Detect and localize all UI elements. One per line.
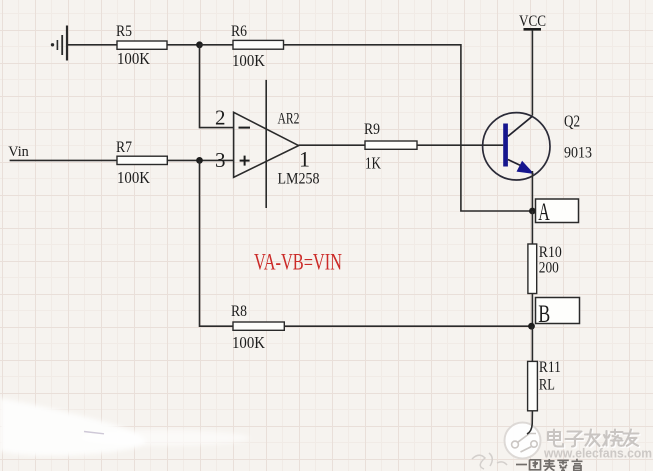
node junction (pin2 net, top) — [196, 41, 203, 48]
wire junction to R6 — [200, 44, 234, 46]
glyph ling — [557, 460, 569, 470]
node junction (pin3 net) — [196, 157, 203, 164]
svg-text:VCC: VCC — [519, 13, 546, 30]
svg-text:9013: 9013 — [564, 145, 592, 162]
svg-text:VA-VB=VIN: VA-VB=VIN — [254, 250, 342, 275]
base bar — [503, 124, 508, 167]
emitter lead — [508, 160, 529, 170]
resistor R10 — [528, 244, 562, 294]
collector lead — [508, 116, 533, 136]
svg-text:A: A — [538, 199, 550, 226]
wire R10 to node B — [531, 294, 533, 327]
wire junction down to pin 2 — [200, 45, 234, 128]
glyph yi (dash) — [516, 464, 527, 466]
wire R8 to node B — [284, 325, 531, 327]
wire op-amp output to R9 — [299, 144, 365, 146]
resistor R8 — [231, 303, 284, 352]
emitter arrow — [517, 162, 533, 174]
glyph zi — [566, 432, 584, 447]
svg-text:R6: R6 — [231, 23, 247, 40]
watermark logo circle — [505, 423, 541, 459]
glyph yin — [572, 459, 583, 471]
glyph shao — [603, 430, 622, 446]
wire R11 down (over logo) — [527, 411, 532, 434]
svg-text:www.elecfans.com: www.elecfans.com — [543, 446, 652, 461]
svg-text:RL: RL — [539, 377, 555, 394]
resistor R5 — [116, 23, 167, 68]
faint scribbles — [472, 453, 507, 469]
node A label box — [536, 199, 579, 226]
transistor Q2 — [483, 112, 592, 181]
node A junction — [529, 208, 536, 215]
glyph fa — [585, 430, 600, 447]
glyph zou — [543, 459, 555, 471]
svg-text:3: 3 — [215, 148, 226, 172]
ground — [51, 26, 67, 61]
wire ground to R5 — [67, 44, 117, 46]
svg-text:200: 200 — [539, 260, 559, 277]
node B junction — [528, 323, 535, 330]
resistor R7 — [116, 139, 167, 187]
wire R9 to base — [417, 144, 503, 146]
resistor R11 — [528, 359, 561, 411]
svg-text:R9: R9 — [364, 121, 380, 138]
svg-text:B: B — [538, 301, 550, 328]
svg-text:100K: 100K — [232, 333, 266, 352]
svg-text:100K: 100K — [117, 168, 151, 187]
svg-text:R10: R10 — [539, 244, 562, 261]
svg-text:100K: 100K — [117, 49, 151, 68]
wire R6 right, down, to node A — [284, 45, 533, 211]
svg-text:R8: R8 — [231, 303, 247, 320]
watermark text "dian zi fa shao you" (vector strokes) — [548, 430, 639, 447]
svg-text:2: 2 — [215, 106, 226, 130]
glyph tuan — [530, 460, 541, 470]
wire R5 to node2 junction — [167, 44, 200, 46]
wire node A to R10 — [531, 211, 533, 244]
bottom scribble watermark (vector strokes) — [516, 459, 583, 471]
wire Vin to R7 — [10, 159, 117, 161]
watermark text emboss highlight — [549, 431, 640, 448]
svg-text:LM258: LM258 — [278, 171, 320, 188]
resistor R6 — [231, 23, 284, 70]
minus input marker — [239, 127, 251, 129]
op-amp power line — [265, 80, 267, 208]
wire VCC to collector — [531, 30, 533, 116]
VCC — [519, 13, 546, 30]
node B label box — [536, 298, 580, 329]
svg-text:1: 1 — [299, 147, 310, 172]
svg-text:AR2: AR2 — [278, 111, 300, 128]
svg-text:R11: R11 — [539, 359, 561, 376]
white patch bottom-left — [0, 398, 250, 456]
plus input marker — [240, 160, 250, 162]
glyph dian — [548, 430, 563, 447]
svg-text:Vin: Vin — [8, 144, 29, 160]
resistor R9 — [364, 121, 417, 173]
wire R7 to pin3 junction — [167, 159, 233, 161]
svg-text:1K: 1K — [365, 154, 382, 173]
op-amp U1 AR2 triangle — [215, 80, 320, 208]
svg-text:Q2: Q2 — [564, 112, 580, 131]
wire node B to R11 — [531, 326, 533, 361]
svg-text:R7: R7 — [116, 139, 132, 156]
glyph you — [624, 430, 639, 446]
wire pin3 junction down to R8 — [200, 160, 234, 326]
svg-text:100K: 100K — [232, 51, 266, 70]
svg-text:R5: R5 — [116, 23, 132, 40]
wire emitter to node A — [531, 171, 533, 211]
